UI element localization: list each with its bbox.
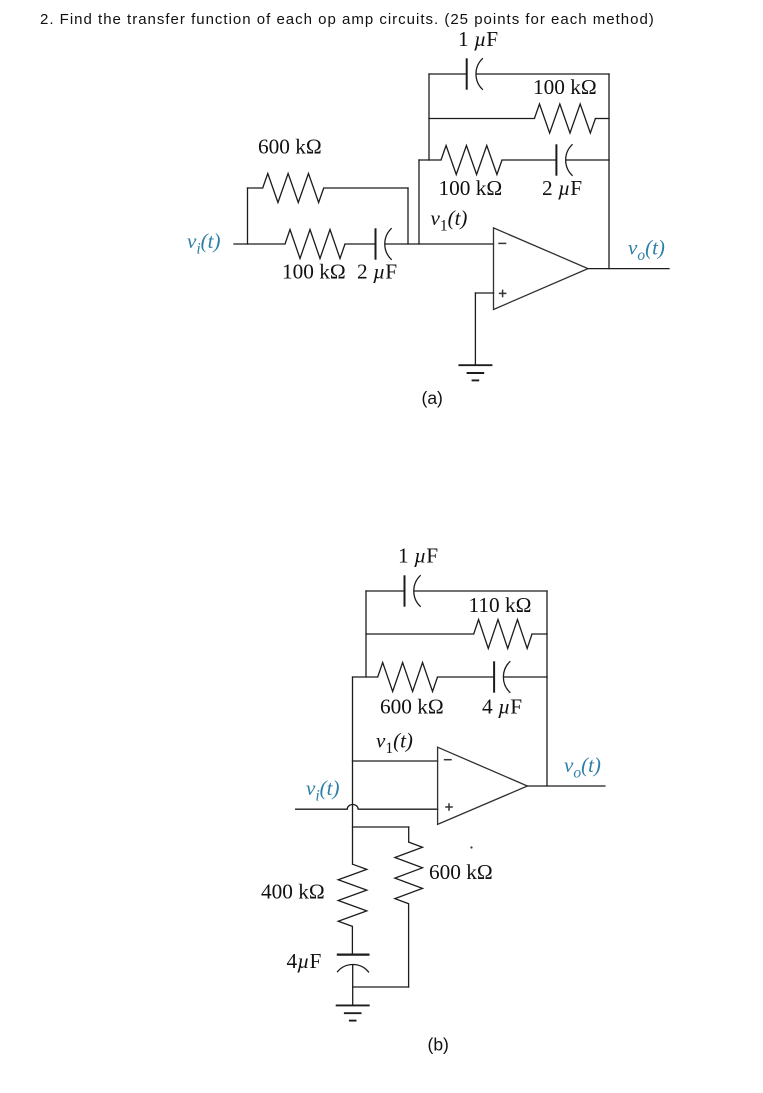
capacitor C5 4uF line3 (b) [493,661,495,692]
svg-text:2 µF: 2 µF [542,176,582,200]
svg-text:v1(t): v1(t) [376,729,413,757]
wire divider right branch top lead (b) [408,827,410,842]
wire noninverting input (a) [475,292,493,294]
ground GND2 (b) [336,1004,370,1006]
wire noninverting to ground vertical (a) [474,293,476,365]
wire top line left (b) [366,590,405,592]
wire line3 cap to right vertical (b) [504,676,547,678]
svg-text:vi(t): vi(t) [187,229,220,257]
wire divider right branch bottom lead (b) [408,904,410,987]
resistor R5 110k line2 (b) [474,620,532,649]
wire output line (b) [527,785,605,787]
wire line3 lead-in (a) [419,159,441,161]
svg-text:1 µF: 1 µF [398,543,438,567]
wire top line left (a) [429,73,467,75]
wire 600k branch to right (a) [324,187,408,189]
capacitor C4 1uF top (b) [404,575,406,606]
wire divider tee horizontal (b) [353,826,409,828]
wire vi line to noninverting input (b) [358,808,437,810]
svg-text:100 kΩ: 100 kΩ [533,75,597,99]
svg-text:4µF: 4µF [287,949,322,973]
wire line3 lead-in (b) [353,676,378,678]
svg-text:600 kΩ: 600 kΩ [258,135,322,159]
svg-text:100 kΩ: 100 kΩ [439,176,503,200]
wire capacitor to inverting input (a) [385,243,493,245]
wire 600k branch right vertical (a) [407,188,409,244]
svg-text:600 kΩ: 600 kΩ [380,695,444,719]
wire divider bottom return (b) [353,986,409,988]
svg-text:110 kΩ: 110 kΩ [469,593,532,617]
wire top line right (b) [414,590,547,592]
svg-text:(a): (a) [422,388,443,408]
wire box left vertical (a) [428,74,430,160]
wire long left vertical node v1 (b) [352,677,354,864]
wire line2 right (b) [532,633,547,635]
resistor R3 100k line3 (a) [441,146,502,175]
svg-text:1 µF: 1 µF [458,27,498,51]
capacitor C1 2uF input (a) [375,228,377,259]
svg-text:vo(t): vo(t) [564,753,601,781]
svg-text:v1(t): v1(t) [431,206,468,234]
op-amp U2 (b) [438,747,528,824]
wire input segment from vi source (a) [234,243,285,245]
capacitor C6 4uF vertical plate (b) [337,953,370,955]
op-amp U2 minus sign (b) [444,759,452,761]
wire line3 resistor to cap (a) [502,159,556,161]
wire output line (a) [588,268,669,270]
wire top line right (a) [477,73,610,75]
svg-text:2 µF: 2 µF [357,260,397,284]
wire v1 line to inverting input (b) [353,760,438,762]
wire node junction vertical line3 to input (a) [418,160,420,244]
title problem statement [40,11,655,28]
op-amp U2 plus sign (b) [445,803,453,811]
wire cap to ground (b) [352,965,354,1006]
resistor R7 600k divider (b) [395,842,423,904]
wire line3 cap to right vertical (a) [566,159,609,161]
wire right vertical feedback to output (a) [608,74,610,269]
wire 600k branch lead-in (a) [248,187,263,189]
resistor R4 100k line2 (a) [534,104,595,133]
capacitor C3 1uF top (a) [466,58,468,89]
wire 400k to cap plate (b) [351,926,353,954]
wire resistor to capacitor (a) [345,243,376,245]
capacitor C6 4uF vertical arc (b) [337,964,369,972]
resistor R1 100k input (a) [285,230,345,259]
svg-text:100 kΩ: 100 kΩ [282,260,346,284]
op-amp U1 (a) [494,228,589,310]
wire line2 right (a) [595,118,609,120]
resistor R6 600k line3 (b) [378,663,438,692]
wire vi line hop over vertical (b) [347,805,358,810]
svg-text:600 kΩ: 600 kΩ [429,860,493,884]
wire line3 resistor to cap (b) [438,676,495,678]
svg-text:400 kΩ: 400 kΩ [261,880,325,904]
svg-text:vo(t): vo(t) [628,236,665,264]
svg-text:4 µF: 4 µF [482,695,522,719]
capacitor C2 2uF line3 (a) [555,144,557,175]
ground GND1 (a) [458,364,492,366]
op-amp U1 minus sign (a) [498,242,506,244]
wire vi input line left (b) [296,808,348,810]
wire right vertical feedback to output (b) [546,591,548,786]
svg-text:vi(t): vi(t) [306,776,339,804]
wire box left vertical (b) [365,591,367,677]
wire line2 left (a) [429,118,534,120]
resistor R2 600k feedback branch (a) [263,174,324,203]
resistor R8 400k divider (b) [338,864,367,926]
wire 600k branch left vertical (a) [247,188,249,244]
wire line2 left (b) [366,633,474,635]
svg-text:(b): (b) [428,1035,449,1055]
stray dot artifact (b) [470,846,472,848]
op-amp U1 plus sign (a) [499,290,507,298]
